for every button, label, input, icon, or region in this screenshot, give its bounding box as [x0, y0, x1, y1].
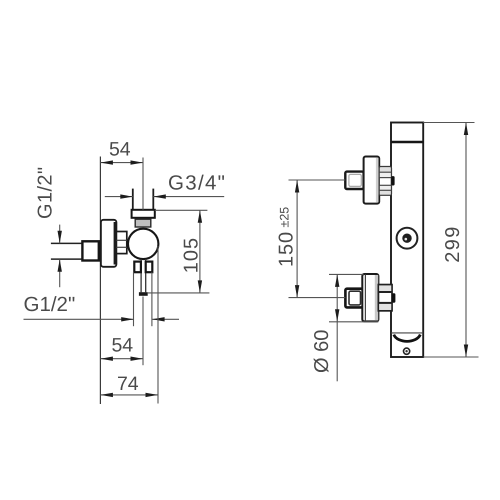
svg-text:Ø 60: Ø 60 — [311, 330, 333, 373]
top nut (threaded) — [135, 219, 151, 227]
dim 105 extension top — [155, 209, 208, 211]
dim 299 line — [465, 123, 467, 358]
svg-text:G3/4": G3/4" — [168, 172, 226, 195]
left supply pipe G1/2 — [51, 242, 101, 244]
wall plate (escutcheon) — [101, 220, 117, 267]
valve body between plate and ball — [116, 232, 126, 254]
svg-text:74: 74 — [117, 373, 139, 395]
lower envelope line right — [151, 272, 153, 326]
dim Ø60 ext top — [329, 273, 364, 275]
bottom handle knob — [345, 289, 362, 308]
body cap joint line — [391, 141, 423, 144]
dim Ø60 line — [336, 274, 338, 381]
svg-text:54: 54 — [109, 139, 131, 161]
outlet curve — [394, 335, 421, 342]
dim 54 bottom ext right — [142, 297, 144, 366]
top handle knob — [345, 172, 363, 189]
svg-text:±25: ±25 — [277, 207, 291, 228]
dim 54 top line — [100, 162, 143, 164]
top outlet pipe G3/4 — [132, 189, 134, 210]
center screw inner — [402, 234, 411, 243]
svg-text:299: 299 — [442, 225, 464, 263]
dim 105 extension bottom — [148, 292, 210, 294]
mixer body — [391, 123, 423, 358]
G1/2 top dim line — [59, 225, 61, 244]
svg-text:G1/2": G1/2" — [24, 293, 76, 316]
square fitting on supply pipe — [82, 241, 98, 260]
bottom spline — [378, 285, 392, 311]
bottom screw — [404, 348, 410, 354]
bottom handle flange — [362, 274, 378, 321]
dim 299 ext top — [423, 122, 474, 124]
lower collar block right — [146, 262, 153, 273]
bottom handle axis mark — [392, 293, 395, 302]
svg-text:150: 150 — [276, 231, 298, 267]
dim 54 top right extension — [142, 158, 144, 210]
G3/4 leader arrows — [105, 196, 133, 198]
dim 74 line — [100, 394, 158, 396]
dim 150 ext top — [289, 179, 346, 181]
lower envelope line left — [133, 272, 135, 326]
lower pipe end cap — [139, 292, 148, 296]
top handle axis mark — [391, 176, 394, 185]
lower collar block left — [134, 262, 141, 273]
dim 105 line — [199, 210, 201, 293]
top spline — [379, 167, 391, 196]
dim 74 ext right (ball front) — [157, 246, 159, 404]
G1/2 bottom leader — [24, 318, 134, 320]
dim 150 ext bottom — [289, 297, 346, 299]
top handle flange — [364, 157, 380, 204]
ball valve circle — [128, 229, 158, 259]
svg-text:105: 105 — [181, 237, 203, 273]
lower pipe inner lines — [140, 259, 142, 292]
center screw outer — [397, 228, 418, 249]
dim 54 bottom line — [100, 358, 143, 360]
top collar — [132, 210, 155, 218]
svg-text:G1/2": G1/2" — [35, 167, 57, 219]
outlet recess top line — [391, 332, 423, 334]
dim 299 ext bottom — [423, 356, 478, 358]
wall line — [99, 157, 101, 405]
dim Ø60 ext bottom — [329, 321, 378, 323]
dim 150 line — [296, 180, 298, 298]
svg-text:54: 54 — [111, 335, 133, 357]
